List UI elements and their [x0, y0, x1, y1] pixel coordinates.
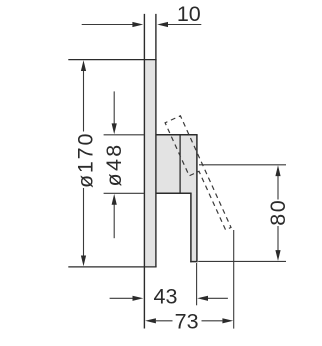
extension line right (for 73)	[233, 230, 235, 329]
valve body boss fill	[156, 135, 180, 194]
plate (wall plate / escutcheon) fill	[144, 60, 156, 267]
grip bottom cap	[190, 261, 197, 263]
dimension 43: right leader with arrow	[197, 296, 228, 301]
dimension ø48: bottom outside arrow	[112, 194, 117, 238]
svg-text:10: 10	[177, 2, 201, 26]
dimension ø48: top extension line	[104, 134, 145, 136]
dimension 43: left leader with arrow	[110, 296, 144, 301]
svg-text:ø170: ø170	[73, 132, 97, 188]
plate bottom edge + ø170 bottom extension line	[68, 266, 156, 268]
extension line below lever (for 43)	[196, 263, 198, 305]
dimension 10: right leader line with arrow	[157, 22, 201, 27]
plate front edge (with extension up to dimension 10)	[155, 14, 157, 267]
wall line	[143, 14, 145, 329]
boss / handle divider line	[179, 135, 181, 194]
svg-text:43: 43	[154, 284, 178, 308]
handle grip fill	[191, 193, 197, 261]
dimension 80: bottom extension line	[198, 260, 286, 262]
dimension 73: line with outward arrows	[145, 318, 233, 323]
svg-text:80: 80	[266, 199, 290, 226]
dashed handle in open position	[165, 116, 231, 230]
dimension 80: top extension line	[199, 164, 286, 166]
dimension 10: left leader line with arrow	[82, 22, 144, 27]
dimension ø170: vertical dimension line with arrows	[81, 60, 86, 266]
handle base fill	[180, 135, 197, 194]
dimension ø48: top outside arrow	[112, 91, 117, 134]
boss bottom edge	[156, 192, 192, 194]
body top edge (boss + handle base)	[156, 134, 198, 136]
svg-text:73: 73	[175, 309, 199, 333]
handle right edge	[196, 135, 198, 262]
svg-text:ø48: ø48	[102, 143, 126, 187]
dimension ø48: bottom extension line	[104, 192, 145, 194]
dimension 80: vertical dimension line with arrows	[275, 165, 280, 261]
plate top edge + ø170 top extension line	[68, 59, 156, 61]
grip left edge	[190, 193, 192, 262]
